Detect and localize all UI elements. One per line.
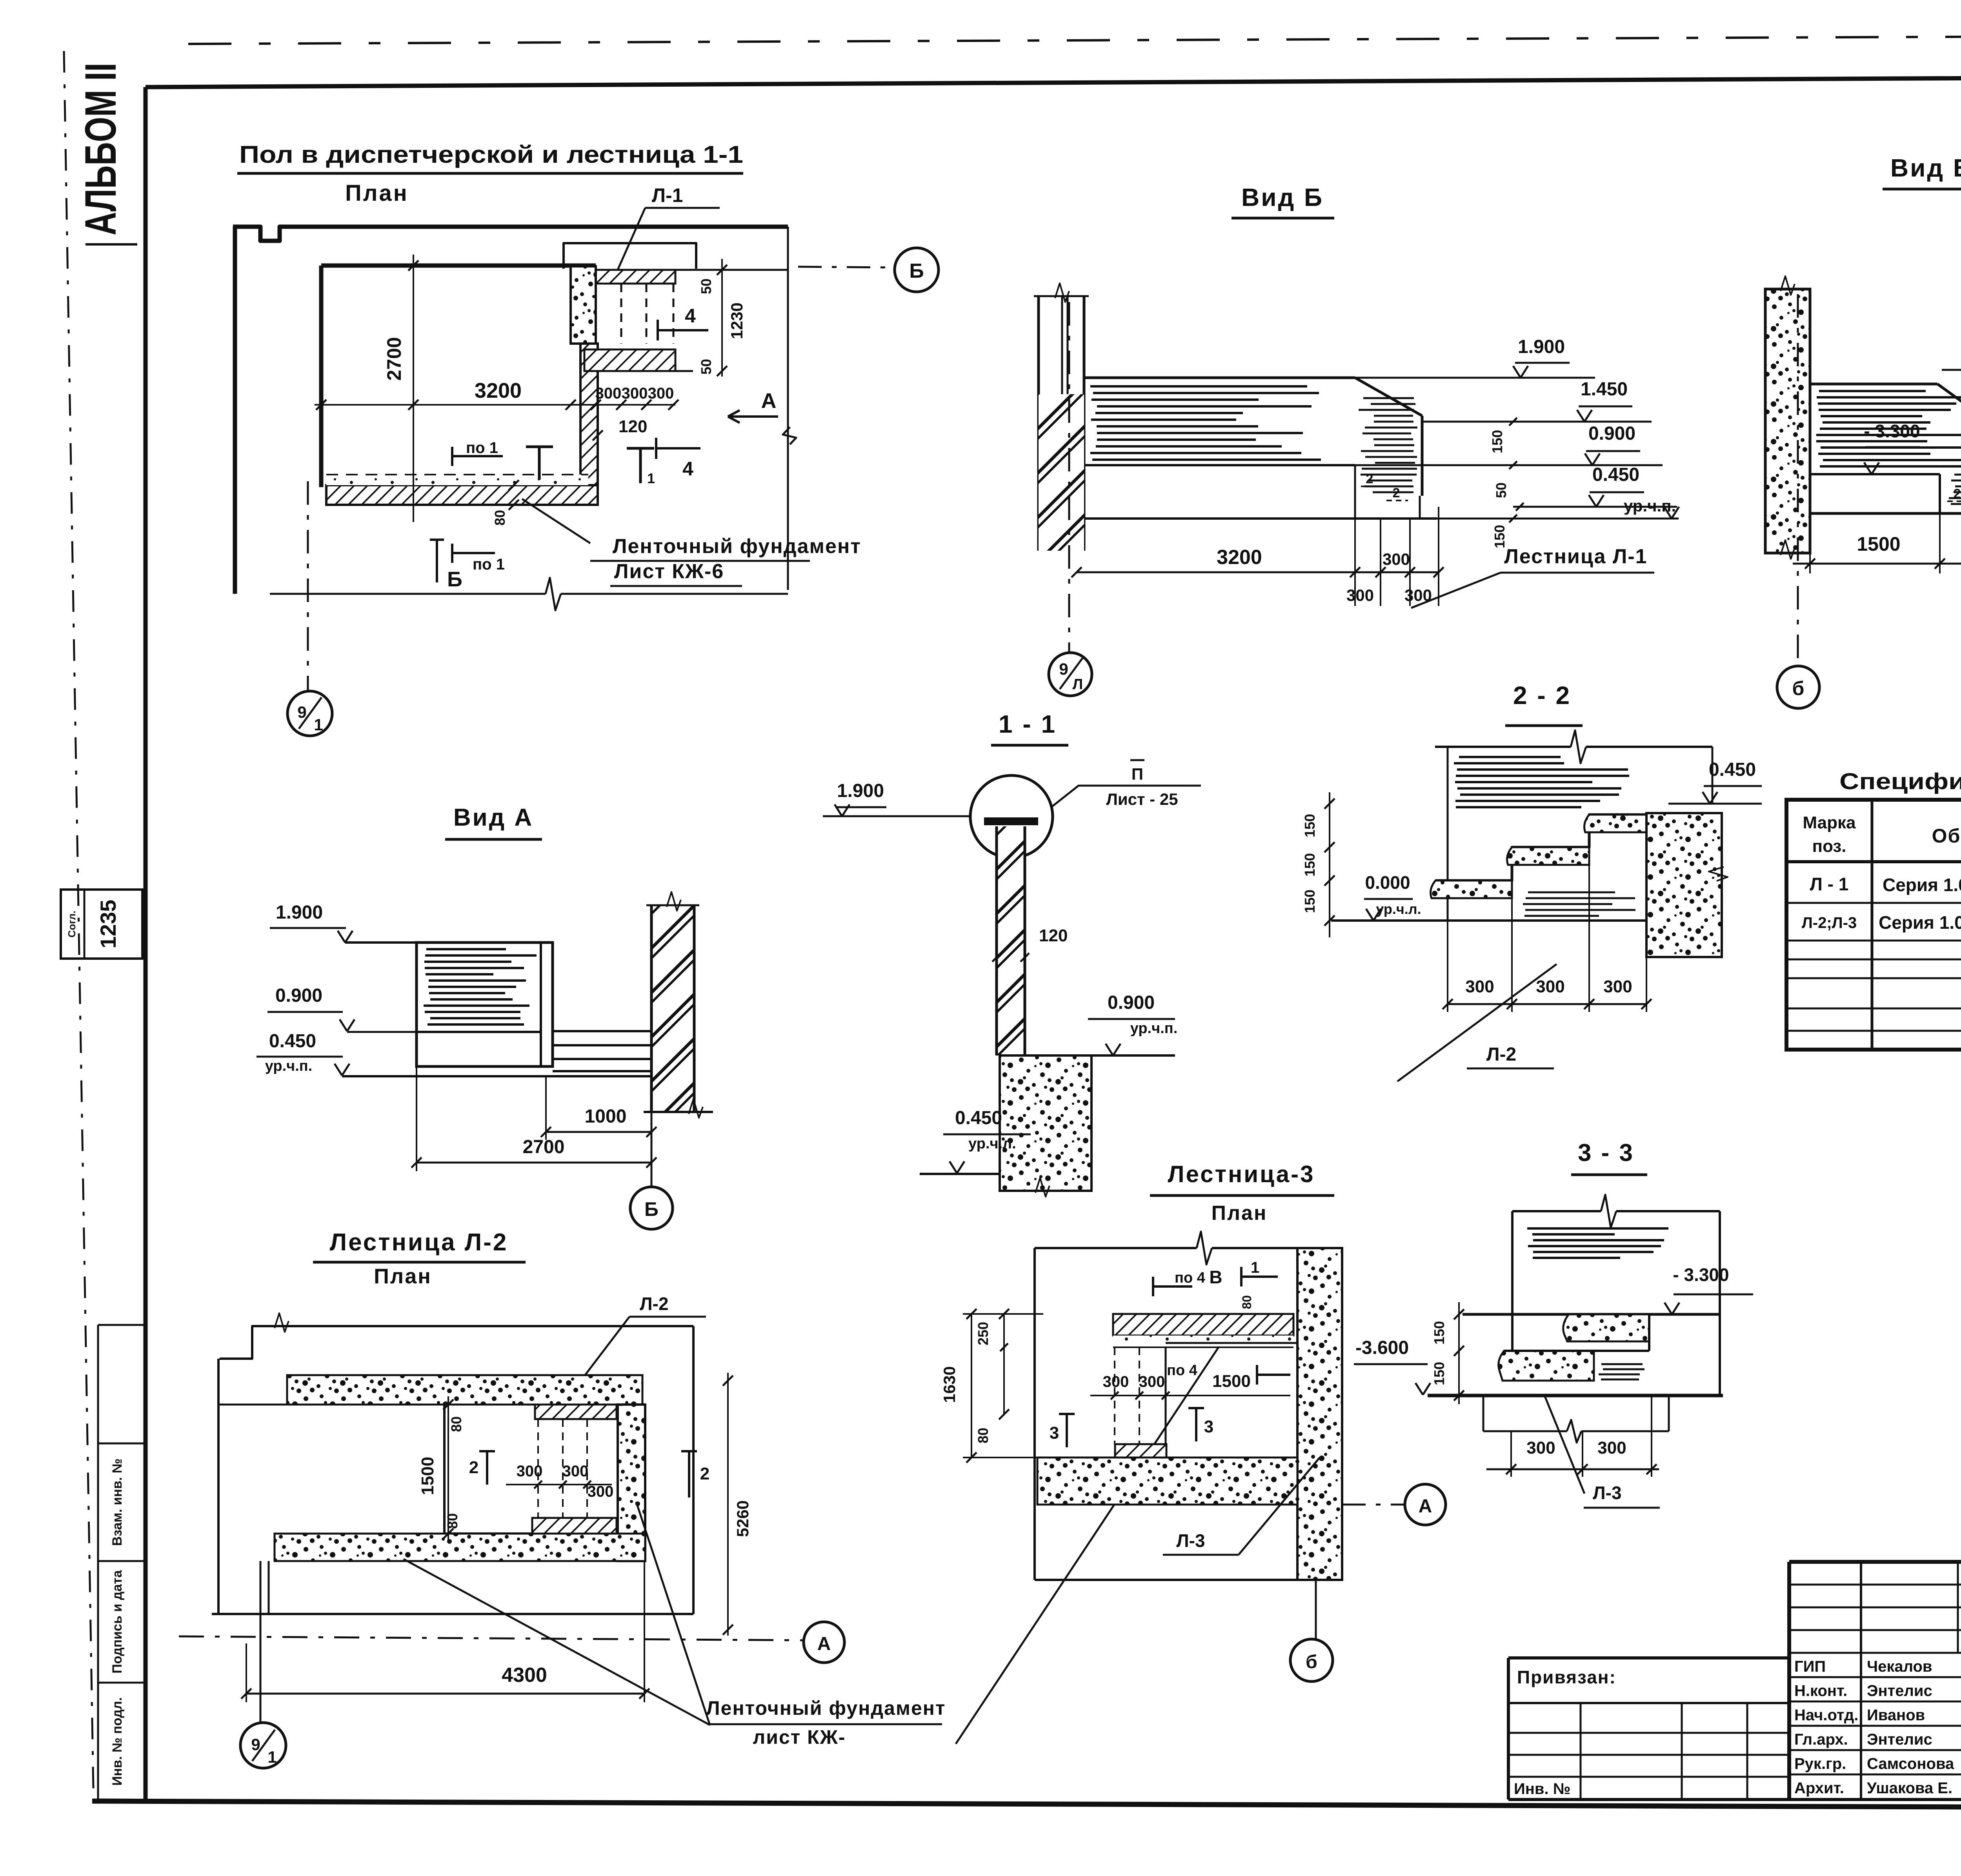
3-3: landing line [1463, 1313, 1720, 1316]
svg-text:80: 80 [444, 1513, 460, 1529]
svg-text:1500: 1500 [1212, 1372, 1251, 1391]
svg-text:Иванов: Иванов [1867, 1707, 1925, 1724]
svg-text:300: 300 [1139, 1373, 1165, 1390]
inner frame bottom [92, 1801, 1961, 1809]
svg-text:300: 300 [588, 1483, 614, 1500]
Vid B: mass horizontal streak fill [1090, 385, 1307, 388]
3-3: dim 300 300 [1510, 1431, 1512, 1477]
svg-text:2: 2 [700, 1464, 709, 1483]
svg-text:Чекалов: Чекалов [1867, 1658, 1932, 1675]
L2 plan: section marks 2 [479, 1450, 495, 1452]
svg-text:1.450: 1.450 [1581, 379, 1628, 400]
svg-text:3 - 3: 3 - 3 [1578, 1139, 1634, 1166]
svg-text:-3.600: -3.600 [1355, 1337, 1409, 1358]
svg-text:Энтелис: Энтелис [1867, 1731, 1932, 1748]
3-3: step with stipple noses [1563, 1314, 1649, 1341]
dim 2700 vertical [413, 255, 414, 522]
Vid B: bottom dim 3200 + 300s [1354, 465, 1356, 606]
svg-text:Рук.гр.: Рук.гр. [1794, 1755, 1846, 1772]
L2 plan: hatch strip bottom of well [532, 1518, 617, 1534]
plan: strip foundation band (hatched) [326, 485, 598, 505]
Vid A: axis to circle Б [651, 1112, 653, 1187]
L3 plan: bottom concrete band [1037, 1457, 1297, 1505]
title block: outer top and left [1789, 1560, 1961, 1564]
3-3: streaks top [1527, 1227, 1668, 1230]
svg-text:250: 250 [975, 1322, 991, 1345]
svg-text:0.450: 0.450 [955, 1108, 1002, 1128]
svg-text:3: 3 [1050, 1423, 1059, 1443]
svg-text:1: 1 [267, 1748, 277, 1766]
plan: top wall inner line [321, 264, 596, 268]
L3 plan: labels top [1152, 1277, 1154, 1296]
svg-text:А: А [817, 1634, 831, 1654]
Vid V: concrete wall (stipple) [1765, 289, 1810, 553]
svg-text:Л: Л [1073, 676, 1083, 693]
svg-text:ур.ч.п.: ур.ч.п. [1130, 1020, 1178, 1037]
Vid B: stair mass outline [1084, 377, 1355, 379]
svg-text:Гл.арх.: Гл.арх. [1794, 1731, 1848, 1748]
plan: left wall outer [233, 227, 237, 594]
dim 1230 vertical right [721, 259, 723, 377]
svg-text:120: 120 [1039, 926, 1068, 945]
svg-text:2700: 2700 [383, 337, 405, 380]
L2 plan: outer walls [220, 1326, 693, 1359]
plan: hatched wall below column [580, 344, 598, 487]
svg-text:Марка: Марка [1803, 813, 1856, 832]
2-2: side boundaries [1447, 747, 1449, 921]
svg-text:Пол в диспетчерской и лестница: Пол в диспетчерской и лестница 1-1 [239, 141, 743, 168]
svg-text:4300: 4300 [502, 1664, 547, 1687]
section mark по 1 upper [451, 447, 453, 466]
plan: stair step dashed lines [620, 284, 622, 344]
L2 plan: dim 1500 vertical [448, 1396, 449, 1541]
svg-text:Инв. № подл.: Инв. № подл. [110, 1697, 125, 1786]
svg-text:1: 1 [314, 715, 323, 734]
plan: stair flight hatch strip lower [584, 349, 675, 371]
svg-text:3: 3 [1204, 1417, 1213, 1436]
svg-text:П: П [1131, 765, 1143, 783]
1-1: detail circle with T flange [970, 775, 1053, 858]
inner frame left [144, 87, 148, 1801]
svg-text:0.450: 0.450 [269, 1031, 316, 1052]
svg-text:50: 50 [1493, 482, 1509, 498]
svg-text:по 4: по 4 [1167, 1362, 1197, 1379]
L2 plan: hatch strip top of well [535, 1405, 617, 1419]
svg-text:Инв. №: Инв. № [1514, 1780, 1570, 1798]
Vid V: ground line -3.600 [1810, 512, 1961, 515]
svg-text:300: 300 [1346, 586, 1374, 604]
svg-text:Вид В: Вид В [1890, 154, 1961, 182]
svg-text:1630: 1630 [940, 1366, 959, 1403]
Vid A: right brick wall [651, 905, 694, 1112]
axis Б dash-dot to circle [798, 267, 895, 267]
svg-text:50: 50 [698, 278, 714, 294]
svg-text:0.900: 0.900 [1588, 423, 1635, 444]
svg-text:Л-3: Л-3 [1176, 1530, 1205, 1551]
svg-text:300: 300 [1603, 977, 1632, 996]
svg-text:150: 150 [1431, 1362, 1447, 1385]
svg-text:150: 150 [1302, 890, 1318, 913]
3-3: left dims 150/150 [1458, 1302, 1460, 1404]
svg-text:1 - 1: 1 - 1 [999, 710, 1057, 738]
Vid V: mass streaks [1819, 390, 1926, 392]
L2 plan: dim 4300 [246, 1643, 247, 1702]
svg-text:150: 150 [1489, 430, 1505, 453]
svg-text:лист КЖ-: лист КЖ- [753, 1726, 846, 1748]
section mark Б bottom [436, 540, 438, 582]
svg-text:Б: Б [909, 260, 924, 282]
2-2: concrete block right (stipple) [1646, 813, 1722, 957]
2-2: label Л-2 with leader [1397, 964, 1557, 1081]
1-1: brick wall hatched [997, 826, 1025, 1055]
svg-text:Подпись и дата: Подпись и дата [110, 1570, 125, 1674]
L3 plan: left dims 250/1630/80 [971, 1314, 972, 1457]
svg-text:по 4: по 4 [1175, 1270, 1205, 1286]
svg-text:- 3.300: - 3.300 [1864, 421, 1920, 441]
svg-text:Лестница Л-2: Лестница Л-2 [330, 1229, 508, 1256]
3-3: ground line [1428, 1394, 1723, 1397]
svg-text:Б: Б [447, 568, 462, 591]
svg-text:300: 300 [517, 1463, 543, 1480]
svg-text:1000: 1000 [585, 1106, 627, 1127]
svg-text:120: 120 [618, 417, 647, 436]
plan: Л-1 flight outline box [564, 243, 696, 269]
svg-text:поз.: поз. [1812, 837, 1846, 856]
svg-text:Ленточный фундамент: Ленточный фундамент [706, 1697, 946, 1719]
svg-text:АЛЬБОМ II: АЛЬБОМ II [76, 63, 125, 235]
title block: Привязан box [1508, 1656, 1789, 1659]
svg-text:Б: Б [644, 1198, 659, 1220]
Vid B: lower step lines [1354, 465, 1356, 519]
svg-text:План: План [345, 180, 409, 206]
section mark Т1 [627, 447, 654, 450]
Vid V: axis dash-dot + circle б [1797, 294, 1799, 666]
svg-text:9: 9 [1059, 660, 1068, 678]
L3 plan: lower hatch block [1115, 1444, 1166, 1463]
svg-text:4: 4 [685, 305, 696, 327]
svg-text:Архит.: Архит. [1794, 1780, 1844, 1797]
svg-text:Л - 1: Л - 1 [1810, 874, 1849, 894]
svg-text:9: 9 [251, 1735, 260, 1754]
svg-text:0.900: 0.900 [275, 985, 322, 1006]
L3 plan: axis б circle [1315, 1580, 1317, 1639]
svg-text:Лестница Л-1: Лестница Л-1 [1504, 545, 1647, 568]
svg-text:А: А [761, 389, 777, 413]
svg-text:80: 80 [975, 1428, 991, 1443]
svg-text:Л-1: Л-1 [652, 184, 683, 206]
svg-text:по 1: по 1 [473, 556, 505, 573]
svg-text:2: 2 [1366, 471, 1373, 486]
svg-text:4: 4 [682, 458, 693, 480]
svg-text:Л-3: Л-3 [1593, 1483, 1621, 1503]
svg-text:- 3.300: - 3.300 [1673, 1265, 1729, 1285]
svg-text:План: План [1212, 1202, 1268, 1225]
svg-text:300: 300 [1597, 1438, 1626, 1457]
Vid A: slab lines to wall [553, 1030, 651, 1032]
plan: bottom boundary line with break [270, 593, 546, 595]
L2 plan: right concrete column [618, 1405, 645, 1561]
svg-text:1: 1 [1251, 1259, 1259, 1276]
svg-text:50: 50 [698, 359, 714, 375]
svg-text:3200: 3200 [475, 379, 522, 402]
svg-text:ур.ч.п.: ур.ч.п. [265, 1058, 313, 1074]
svg-text:ГИП: ГИП [1794, 1658, 1826, 1675]
svg-text:1: 1 [647, 470, 655, 486]
2-2: streaks under steps [1528, 892, 1615, 893]
svg-text:ур.ч.л.: ур.ч.л. [1376, 901, 1421, 917]
3-3: box outline with break [1512, 1210, 1601, 1212]
svg-text:300: 300 [622, 385, 648, 402]
svg-text:0.000: 0.000 [1365, 872, 1410, 893]
spec table frame [1786, 800, 1961, 1050]
svg-text:Самсонова: Самсонова [1867, 1755, 1954, 1772]
plan: right boundary line [787, 227, 789, 590]
svg-text:300: 300 [648, 385, 674, 402]
svg-text:80: 80 [492, 510, 508, 526]
Vid A: mass streaks [426, 948, 506, 950]
svg-text:150: 150 [1302, 853, 1318, 877]
svg-text:Вид Б: Вид Б [1241, 183, 1324, 211]
dim 3200 horizontal [315, 404, 675, 406]
svg-text:Л-2: Л-2 [640, 1294, 668, 1314]
section mark Т upper [526, 446, 553, 448]
sheet outer cut-line left (dash-dot) [64, 51, 93, 1789]
svg-text:Л-2: Л-2 [1486, 1044, 1516, 1065]
svg-text:Лист КЖ-6: Лист КЖ-6 [614, 560, 724, 583]
svg-text:1.900: 1.900 [837, 781, 884, 801]
svg-text:0.450: 0.450 [1709, 759, 1756, 780]
L2 plan: stairwell box [443, 1405, 446, 1534]
svg-text:1500: 1500 [1857, 533, 1900, 555]
L3 plan: axis А circle [1342, 1504, 1405, 1506]
svg-text:ур.ч.л.: ур.ч.л. [968, 1135, 1016, 1152]
3-3: label Л-3 leader [1545, 1396, 1584, 1494]
L3 plan: inner lines [1165, 1347, 1167, 1456]
sheet outer cut-line top (dashed) [188, 35, 1961, 44]
1-1: concrete foundation stipple [1000, 1055, 1091, 1191]
svg-text:300: 300 [1103, 1373, 1129, 1390]
svg-text:2 - 2: 2 - 2 [1513, 681, 1571, 710]
svg-text:Лист - 25: Лист - 25 [1106, 790, 1178, 808]
margin stack: Взам. инв. № / Подпись и дата / Инв. № подл. [98, 1324, 146, 1326]
svg-text:А: А [1419, 1496, 1432, 1517]
L3 plan: outer box [1033, 1248, 1036, 1580]
section mark 4 lower [655, 438, 657, 459]
svg-text:150: 150 [1302, 814, 1318, 837]
svg-text:2: 2 [1954, 486, 1961, 501]
svg-text:1230: 1230 [728, 302, 746, 339]
2-2: left dim column 150s [1329, 792, 1330, 937]
Vid A: stair mass outline [417, 943, 553, 1066]
Vid V: step rectangle [1810, 473, 1940, 475]
L2 plan: top concrete band (stipple) [287, 1375, 642, 1405]
svg-text:2: 2 [1393, 486, 1400, 500]
svg-text:Н.конт.: Н.конт. [1794, 1682, 1847, 1699]
3-3: streaks lower [1601, 1363, 1643, 1365]
section mark по 1 lower [451, 544, 453, 563]
L3 plan: section marks 3 [1059, 1413, 1075, 1415]
Vid B: 9/Л circle [1049, 653, 1092, 696]
svg-text:150: 150 [1431, 1321, 1447, 1345]
svg-text:б: б [1306, 1652, 1317, 1672]
plan: left wall inner [319, 266, 324, 487]
Vid V: dim 1500 / 600 [1809, 513, 1811, 573]
svg-text:80: 80 [448, 1416, 464, 1432]
Vid B: axis dash-dot down to 9/Л [1068, 302, 1070, 652]
svg-text:Энтелис: Энтелис [1867, 1682, 1932, 1699]
plan: stipple band above foundation [326, 475, 588, 485]
Vid B: wall hatch lower part [1039, 394, 1084, 551]
leader + label Ленточный фундамент / Лист КЖ-6 [522, 499, 590, 543]
inner frame top [146, 75, 1961, 87]
svg-text:Привязан:: Привязан: [1517, 1667, 1616, 1687]
svg-text:2700: 2700 [523, 1137, 565, 1157]
svg-text:1.900: 1.900 [276, 902, 323, 923]
svg-text:Лестница-3: Лестница-3 [1168, 1161, 1315, 1187]
Vid B: wall verticals [1037, 296, 1040, 551]
plan: top wall outer line with notch [233, 227, 788, 241]
svg-text:80: 80 [1240, 1295, 1254, 1309]
L2 plan: bottom concrete band [275, 1534, 645, 1561]
svg-text:300: 300 [562, 1463, 589, 1480]
svg-text:Вид А: Вид А [453, 804, 533, 831]
plan: concrete column (stipple) [571, 266, 596, 344]
svg-text:Ленточный фундамент: Ленточный фундамент [613, 535, 861, 558]
svg-text:Взам. инв. №: Взам. инв. № [110, 1458, 125, 1546]
svg-text:Серия 1.055.1 - 1: Серия 1.055.1 - 1 [1883, 875, 1961, 895]
svg-text:Нач.отд.: Нач.отд. [1794, 1707, 1858, 1724]
svg-text:1500: 1500 [418, 1457, 437, 1495]
svg-text:0.900: 0.900 [1108, 992, 1155, 1013]
svg-text:300: 300 [1465, 977, 1494, 996]
L2 plan: axis 9/1 circle bottom [260, 1561, 262, 1723]
L2 plan: dim 5260 vertical [727, 1373, 729, 1636]
svg-text:2: 2 [469, 1458, 478, 1477]
svg-text:300: 300 [1536, 977, 1564, 996]
L2 plan: axis А dash-dot + circle [179, 1636, 802, 1640]
svg-text:Спецификация элементов лестн: Спецификация элементов лестниц ЛС-1; ЛС-… [1839, 769, 1961, 794]
plan: stair flight hatch strip top [596, 270, 675, 284]
L3 plan: right concrete column [1297, 1248, 1342, 1580]
svg-text:по 1: по 1 [466, 439, 498, 457]
svg-text:Серия 1.055.1 - 1: Серия 1.055.1 - 1 [1879, 912, 1961, 933]
svg-text:3200: 3200 [1217, 546, 1262, 569]
svg-text:9: 9 [297, 703, 306, 721]
L2 plan: dashed step lines [537, 1419, 539, 1518]
svg-text:Ушакова Е.: Ушакова Е. [1867, 1780, 1952, 1797]
label Ленточный фундамент / лист КЖ- (bottom) [404, 1559, 710, 1725]
axis 9/1 dash-dot + circle [307, 481, 309, 691]
L3 plan: hatch strip [1113, 1314, 1293, 1336]
svg-text:0.450: 0.450 [1592, 464, 1639, 485]
2-2: step stipple bands [1431, 881, 1512, 898]
svg-text:300: 300 [1383, 550, 1410, 568]
svg-text:В: В [1209, 1267, 1222, 1287]
svg-text:Обозначение: Обозначение [1932, 825, 1961, 847]
svg-text:1.900: 1.900 [1518, 337, 1565, 357]
section mark 4 upper [657, 320, 659, 340]
2-2: top boundary with break [1435, 746, 1571, 748]
svg-text:1235: 1235 [96, 900, 120, 949]
svg-text:Л-2;Л-3: Л-2;Л-3 [1802, 914, 1857, 932]
Vid V: stair mass outline [1810, 383, 1937, 386]
2-2: bottom dim 300x3 [1447, 921, 1448, 1012]
title block: signature grid [1789, 1584, 1961, 1586]
1-1: leader П / Лист - 25 [1051, 786, 1201, 808]
2-2: ground line + 0.000 [1331, 919, 1646, 922]
2-2: upper streaks [1459, 756, 1561, 758]
svg-text:План: План [374, 1265, 432, 1288]
3-3: below ground outline [1483, 1396, 1484, 1431]
svg-text:б: б [1792, 677, 1805, 699]
svg-text:300: 300 [595, 385, 622, 402]
svg-text:Согл.: Согл. [66, 911, 78, 938]
svg-text:300: 300 [1526, 1438, 1555, 1457]
margin box 1235 [61, 890, 142, 959]
2-2: stair steps profile [1435, 815, 1646, 881]
svg-text:5260: 5260 [733, 1500, 752, 1537]
